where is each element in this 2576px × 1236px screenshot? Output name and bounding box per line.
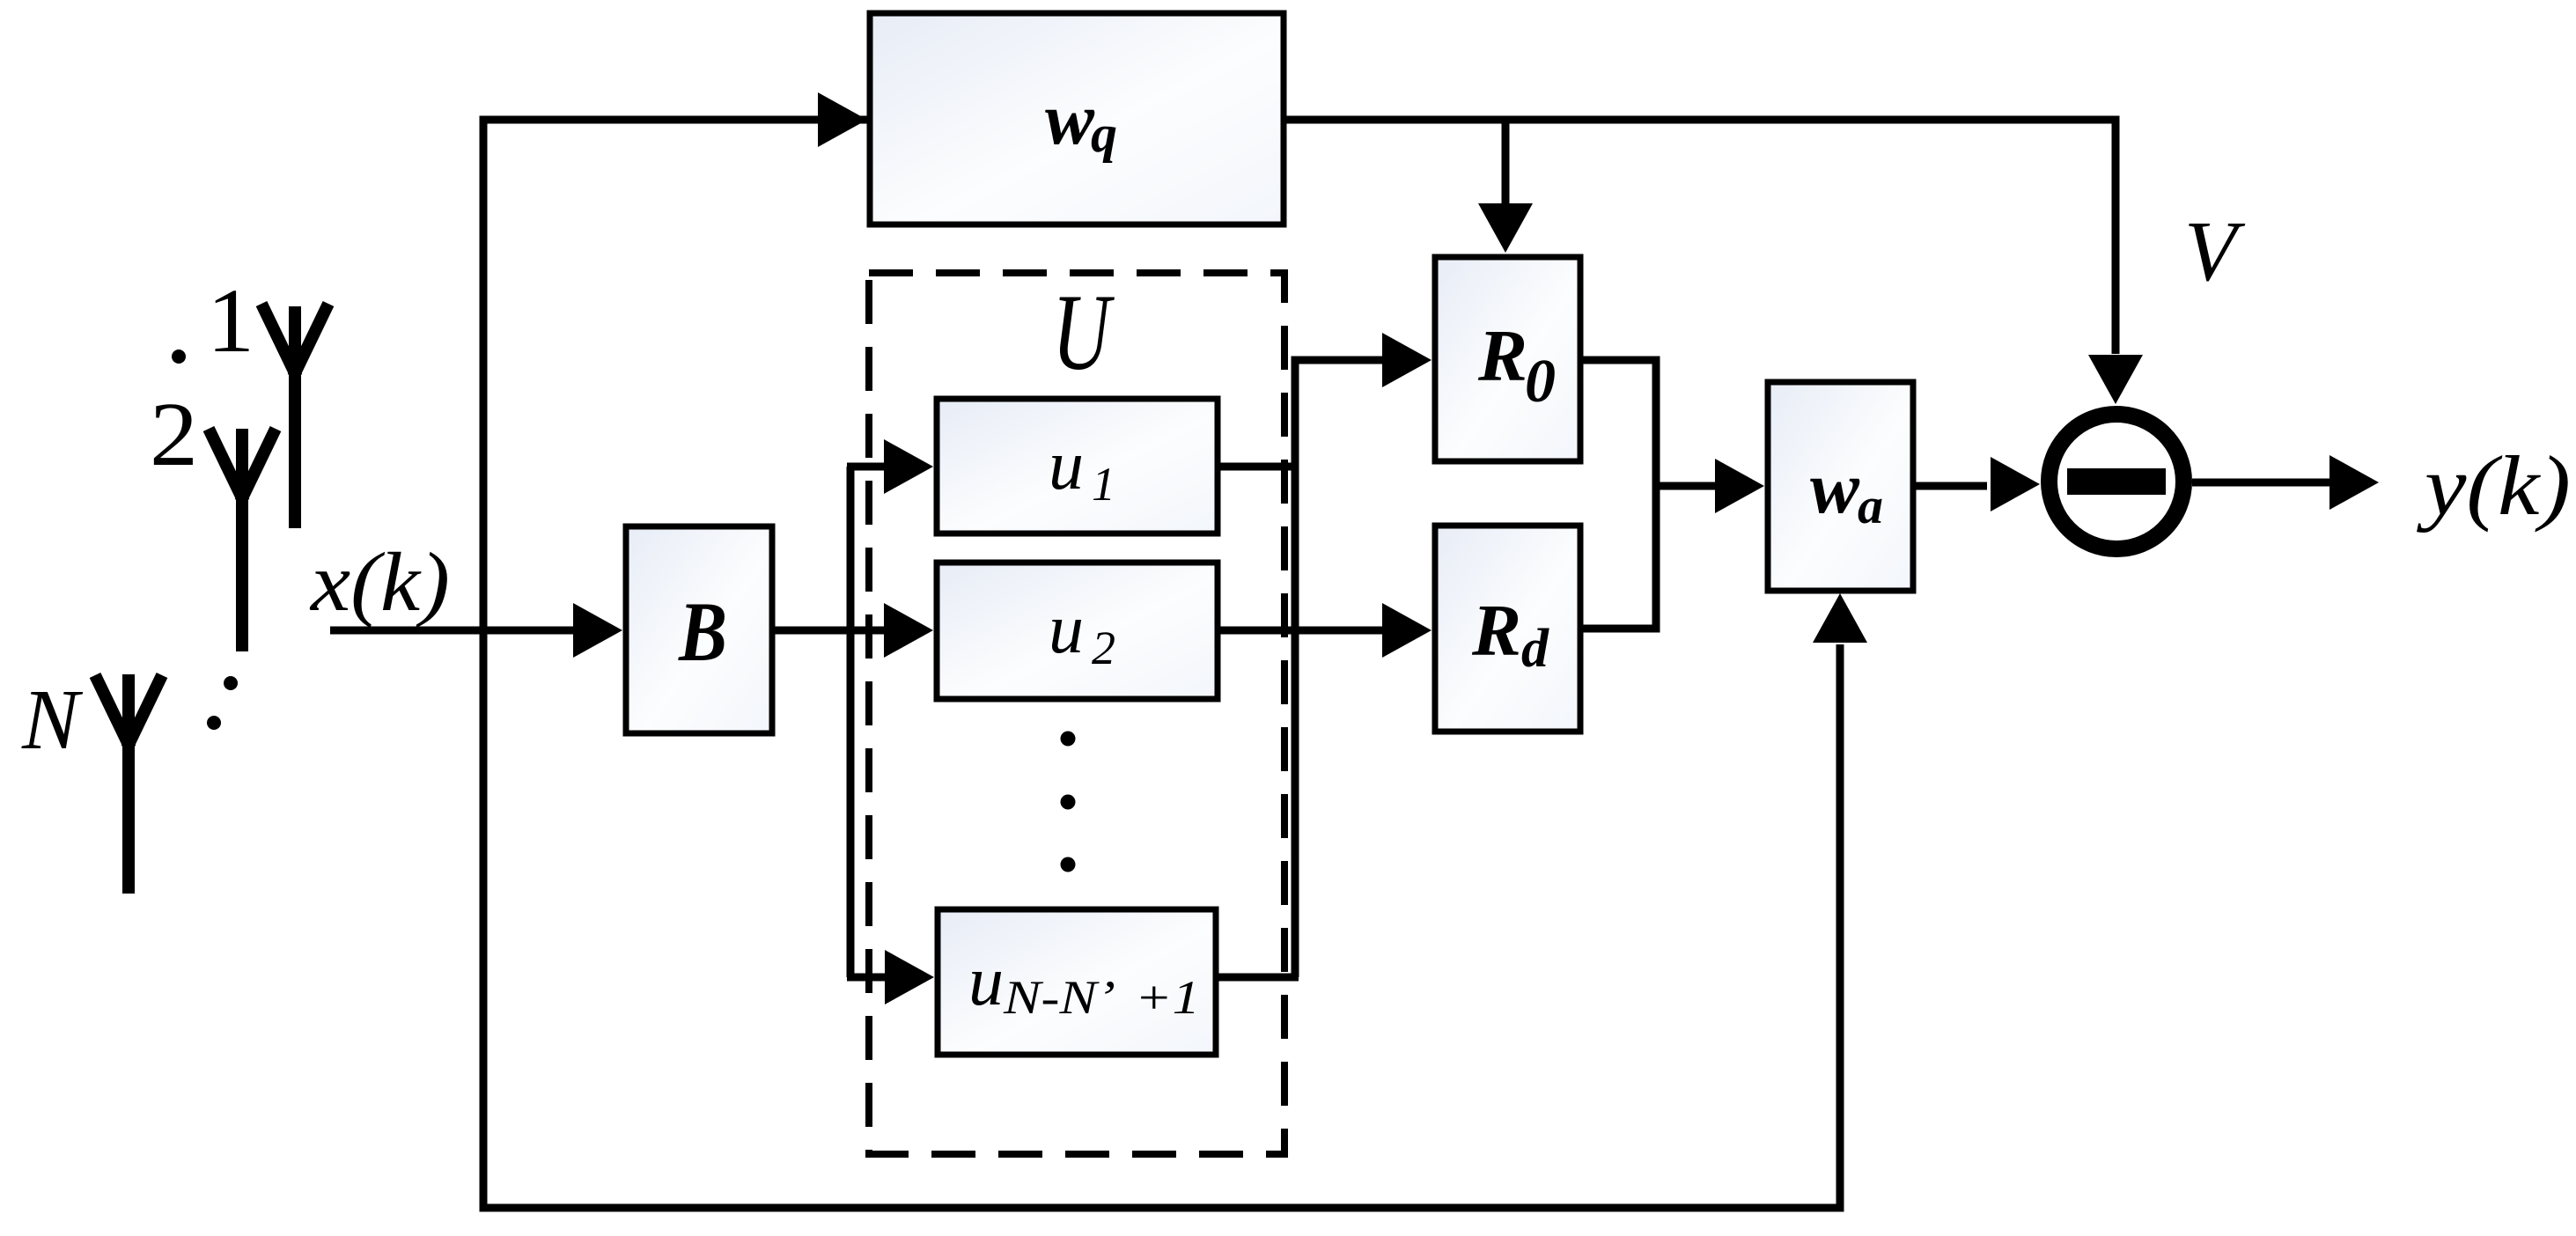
svg-text:u: u	[1049, 427, 1084, 504]
arrowhead into R0 top	[1478, 203, 1533, 253]
arrowhead into Rd left	[1382, 603, 1432, 658]
wire wa output to summing circle	[1913, 482, 1987, 490]
svg-text:+1: +1	[1135, 971, 1200, 1024]
svg-text:2: 2	[1092, 622, 1115, 674]
svg-text:R: R	[1471, 590, 1521, 672]
block R0	[1435, 257, 1580, 461]
ellipsis dots inside U group	[1061, 732, 1076, 747]
svg-text:V: V	[2184, 204, 2246, 299]
dot above antenna 1 label	[172, 349, 186, 364]
summing junction circle	[2050, 415, 2184, 549]
wire stub into uN	[847, 974, 885, 982]
svg-text:R: R	[1477, 315, 1527, 397]
svg-text:2: 2	[150, 384, 198, 485]
arrowhead into u1	[884, 439, 933, 494]
arrowhead into B	[573, 603, 622, 658]
block B	[626, 526, 772, 733]
wire u1 output to collector	[1218, 463, 1299, 471]
wire B output to u2	[772, 627, 884, 635]
wire summing circle output	[2192, 479, 2329, 487]
arrowhead output y(k)	[2329, 455, 2379, 510]
arrowhead into wq	[818, 92, 867, 147]
svg-text:w: w	[1045, 78, 1095, 160]
antenna 2	[209, 429, 276, 651]
wire R0 output, Rd output, right collector, into wa	[1580, 360, 1715, 629]
arrowhead into wa bottom	[1813, 593, 1867, 643]
wire u2 output into Rd	[1218, 627, 1382, 635]
antenna 1	[261, 304, 328, 528]
arrowhead into circle top	[2088, 355, 2143, 404]
svg-text:B: B	[678, 585, 727, 679]
wire uN output to collector	[1216, 974, 1299, 982]
block u2	[937, 563, 1218, 699]
wire top feedback loop: top line, left vertical, bottom line, riser to wa	[483, 120, 2116, 1208]
svg-text:d: d	[1521, 619, 1549, 679]
arrowhead into uN	[885, 950, 934, 1004]
arrowhead into wa left	[1715, 459, 1764, 513]
dots between antenna 2 and N	[224, 676, 238, 690]
wire main input x(k) to B	[330, 627, 573, 635]
wire wq drop into R0 top	[1502, 120, 1510, 205]
block u1	[937, 399, 1218, 533]
block wa	[1768, 382, 1913, 591]
block wq	[870, 13, 1284, 224]
svg-text:N-N’: N-N’	[1003, 971, 1115, 1024]
svg-text:u: u	[968, 943, 1004, 1020]
block uN	[938, 909, 1216, 1055]
svg-text:1: 1	[207, 270, 254, 372]
arrowhead into u2	[884, 603, 933, 658]
svg-text:q: q	[1091, 105, 1117, 163]
wire branch vertical for u1 and uN inputs	[847, 467, 855, 977]
svg-text:u: u	[1049, 591, 1084, 668]
arrowhead into circle left	[1991, 457, 2040, 511]
wire collector vertical and into R0	[1295, 360, 1382, 977]
svg-text:y(k): y(k)	[2416, 438, 2571, 533]
minus sign	[2067, 468, 2166, 495]
svg-text:w: w	[1810, 447, 1860, 529]
wire stub into u1	[847, 463, 884, 471]
arrowhead into R0 left	[1382, 333, 1432, 387]
block Rd	[1435, 526, 1580, 732]
svg-text:1: 1	[1092, 458, 1115, 511]
svg-text:N: N	[21, 673, 84, 767]
svg-text:a: a	[1858, 477, 1883, 534]
antenna N	[95, 674, 162, 894]
svg-text:0: 0	[1525, 348, 1556, 416]
svg-text:x(k): x(k)	[309, 535, 450, 629]
dashed group U	[869, 273, 1284, 1154]
svg-text:U: U	[1052, 272, 1115, 393]
